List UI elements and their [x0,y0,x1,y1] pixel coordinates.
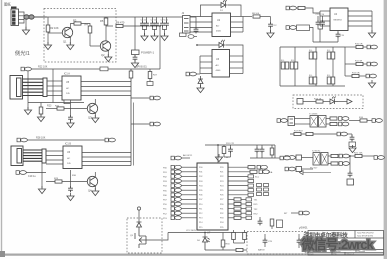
svg-text:IC1 B: IC1 B [65,143,71,146]
resistor R35 horizontal [236,248,243,251]
svg-text:BAT3V: BAT3V [258,249,265,252]
resistor R26 on bus [129,71,133,78]
ribbon end block B [42,149,46,163]
U7 inner pin text [199,167,223,229]
dashed enclosure box 4 [127,218,162,253]
wire drop x53 [52,69,54,103]
bus vertical x131 [130,69,132,166]
svg-text:R10 0R: R10 0R [355,44,363,46]
wire tag to U3 [197,73,201,75]
grid vertical x316 [315,47,317,86]
resistor R14 [330,117,337,120]
Q1 emitter to ground wire [69,37,71,44]
left tag row7 [163,188,197,192]
wire B1 to T2 [302,157,314,159]
wire K2 to bus [310,28,314,43]
resistor R6 horizontal [116,24,123,27]
resistor pair RB1 [309,50,317,59]
svg-text:P13: P13 [199,218,202,220]
capacitor C16 [350,134,355,141]
Q4 collector wire [94,172,96,177]
wire J1 to dashed box [34,16,47,18]
junction dot x160 [159,25,161,27]
bottom wire y250 [205,249,236,251]
vertical x42 drop [41,163,43,188]
wire tag to R9 [297,7,299,9]
right row y218 [228,216,252,219]
bottom loop wire [313,41,338,43]
mosfet Q5 [135,231,146,248]
left tag row9 [163,198,197,202]
net tag Q11 [374,156,384,160]
ground under x28 [24,107,31,115]
svg-text:R23: R23 [47,105,52,108]
capacitor C4 [133,55,138,61]
svg-text:R13 1K: R13 1K [314,99,322,101]
wire drop x205 [204,233,206,238]
left tag row11 [163,207,197,211]
left tag row5 [163,179,197,183]
capacitor C17 [348,156,353,177]
ground under C4 [131,60,138,68]
capacitor C14 [320,16,325,26]
net tag A1 [21,67,31,71]
svg-text:T1 4N35: T1 4N35 [309,114,318,116]
wire to tag OUT1 [363,46,367,48]
svg-text:P23: P23 [220,181,223,183]
ground right of grid [368,80,375,88]
resistor R18 [306,132,313,135]
wire row to C16 [347,133,352,135]
box label Y1 [349,142,356,147]
resistor R3 horizontal [74,22,81,25]
wire R13 to D4 [323,101,330,103]
U4 left pin wires [320,11,330,26]
box B2 row2 [296,167,302,172]
svg-text:R4: R4 [85,23,89,27]
wire B2 to T2 [302,168,314,170]
ground under R1 [44,42,51,50]
capacitor C15 under U4 [336,31,341,43]
CN3 ribbon wires [23,150,42,161]
svg-text:P07: P07 [199,199,202,201]
svg-text:C5 C6: C5 C6 [141,20,148,22]
svg-text:P26: P26 [220,195,223,197]
svg-text:IC1 A: IC1 A [64,73,70,76]
svg-text:Q1: Q1 [63,40,67,44]
svg-text:Total P/N 0F10792: Total P/N 0F10792 [357,232,374,235]
resistor R9 horizontal [298,6,305,9]
svg-text:P20: P20 [220,167,223,169]
title block outer frame [308,231,384,256]
left tag row13 [163,216,197,220]
switch cluster wires [248,145,275,148]
svg-text:P01: P01 [199,172,202,174]
component box K2 [297,25,310,31]
ground under C9 C10 [161,33,168,41]
ground right of U4 [368,30,375,38]
left tag row2 [163,165,197,169]
svg-text:P00: P00 [199,167,202,169]
ground under D3 [197,85,204,93]
wire U2 to C12 node [243,16,252,18]
wire row to R16 [349,120,360,122]
net tag B4 end [105,138,115,142]
svg-text:AD KEY1: AD KEY1 [183,154,193,157]
svg-text:Sheet of: Sheet of [347,253,355,256]
resistor R29 horizontal [55,180,62,183]
wire row1 to R21 [350,155,356,157]
svg-text:VCC MCU: VCC MCU [186,230,197,232]
net tag P6 [337,132,347,136]
svg-text:P22: P22 [220,176,223,178]
net tag X1 [280,156,290,160]
wire T1 out row1 [326,118,330,120]
wire drop x28 [27,71,29,110]
Q2 emitter wire [107,51,109,57]
net tag IN2 [286,26,296,30]
svg-text:4606: 4606 [216,31,222,33]
net tag B3 [17,138,27,142]
resistor R36 vertical [232,230,236,243]
net tag B5 [16,171,26,175]
svg-text:P11: P11 [199,208,202,210]
svg-text:R21 10K: R21 10K [354,153,363,155]
diode D3 vertical [198,76,203,87]
wire row134 [290,133,337,135]
net tag G1 [186,72,196,76]
svg-text:HC: HC [66,88,70,90]
wire to tag [275,157,280,159]
transistor Q2 [100,41,110,51]
resistor R33 below right [270,219,274,229]
svg-text:P25: P25 [220,190,223,192]
box under U5 [64,100,71,104]
resistor R16 [360,119,367,122]
ground under C5 C6 [141,33,148,41]
svg-text:Q2: Q2 [101,53,105,57]
transistor Q4 [87,176,97,186]
resistor R4 vertical [88,26,92,46]
wire R6 to node [123,25,160,27]
resistor pair RC2 [327,75,335,84]
T2 out row2 resistor R20 [328,162,338,165]
ferrite bead FB1 [24,15,29,19]
svg-text:P03: P03 [199,181,202,183]
left tag row10 [163,202,197,206]
IC U7 MCU body [197,163,228,230]
wire y102 [28,102,84,104]
svg-text:P15: P15 [199,227,202,229]
net tag P4 [339,122,349,126]
resistor R32 [270,148,274,155]
svg-text:Q3: Q3 [88,116,92,120]
svg-text:C7 C8: C7 C8 [151,20,158,22]
svg-text:ME4953: ME4953 [334,20,343,22]
ground under C7 C8 [151,33,158,41]
svg-text:P21: P21 [220,172,223,174]
capacitor C22 [255,147,260,153]
arrow head right [347,99,352,104]
border frame bottom edge [0,254,387,256]
Q1 collector wire [71,24,75,29]
U5 right pin wires to bus [81,82,131,96]
wire y140 rail [27,139,105,141]
U3 left pin wires [200,56,212,74]
net tag OUT1 [367,45,377,49]
join wire under R31 C21 [224,157,231,158]
output wire row2 [345,63,356,65]
svg-text:SDA: SDA [268,171,273,174]
optocoupler T2 [313,153,328,166]
arrow end x42 [38,186,45,194]
svg-text:P05: P05 [199,190,202,192]
wires P2 to T1 [295,119,311,125]
svg-text:微信号:2wrck: 微信号:2wrck [301,237,375,252]
wires J2 to U2 [190,17,212,33]
right row y172 wire [228,170,273,174]
resistor R34 vertical [221,233,225,251]
capacitor C25 [263,234,268,247]
right row y181 [228,179,254,182]
U4 right pin wires [348,11,372,32]
node dot D2 feed [196,44,198,46]
IC U2 [212,13,231,37]
wire R25 to Q3 base [64,108,88,110]
U2 right pin wires [231,17,244,33]
wire to R25 [46,108,57,110]
net tag OUT2 [367,62,377,66]
right row y167 wire [228,165,267,169]
svg-text:SPI BUS1: SPI BUS1 [136,66,147,69]
junction x350 [349,155,351,157]
connector J2 [183,16,191,34]
right row y176 [228,175,260,179]
tag box [180,33,187,36]
ground under J1 [22,27,29,35]
resistor R10 [356,45,363,48]
svg-text:AO: AO [216,64,219,67]
resistor R17 [294,132,301,135]
output wire row3 [345,75,352,77]
connector CN3 [11,146,23,166]
ground under Q2 [105,54,112,62]
ground under R31 C21 [215,154,222,162]
wire drop to ground [25,20,27,30]
capacitor C23 [260,147,265,153]
resistor pair RA1 [281,60,289,69]
grid vertical x295 [294,47,296,86]
box under R27 [147,82,153,86]
svg-text:R17 R18: R17 R18 [294,131,303,133]
right row y195 [228,193,254,196]
svg-text:P35: P35 [220,227,223,229]
top rail y145 [205,144,248,146]
svg-text:P10: P10 [199,204,202,206]
resistor R37 vertical [234,230,247,243]
bus second line [133,103,135,166]
svg-text:PC 817: PC 817 [310,168,318,170]
IC U4 [330,8,348,31]
component box S1 [297,99,303,105]
grid vertical x333 [332,47,334,86]
net tag OUT3 [366,74,376,78]
border frame corner mark [0,251,5,257]
border frame right edge band [384,0,387,259]
wire under caps [318,26,323,42]
wire rail to R7 [135,16,196,18]
LED D6 vertical [203,237,210,250]
svg-text:P24: P24 [220,185,223,187]
ground under Y1 [349,145,356,153]
svg-text:R3: R3 [73,19,77,23]
wire D4 to arrow [338,101,347,103]
net tag P3 [339,117,349,121]
wire y69 rail [31,68,160,70]
left tag column row1 [171,154,193,160]
wire to tag OUT2 [363,63,367,65]
net tag VCC left [188,35,197,39]
resistor R27 [148,69,152,82]
title block small text right [357,232,374,238]
crystal box Y2 [347,179,354,185]
svg-text:侧光I1: 侧光I1 [15,49,30,57]
svg-text:P34: P34 [220,222,223,224]
resistor network RN1 [257,184,269,196]
resistor pair RC1 [327,50,335,59]
CN2 ribbon wires [23,79,44,96]
wire out of box [146,233,168,241]
transistor Q3 [87,103,97,113]
svg-text:P12: P12 [199,213,202,215]
top rail wire [47,16,136,18]
U6 right pin wires to bus [82,153,131,166]
resistor R12 [352,74,359,77]
IC U5 [62,76,81,100]
IC U3 [212,50,230,78]
net tag Q10 [339,162,349,166]
left tag row4 [163,175,197,179]
resistor pair RA2 [290,60,298,69]
ground under Q1 [67,42,74,50]
connector J1 [11,9,19,26]
U3 right pin wires [230,56,244,74]
svg-text:R12 0R: R12 0R [352,73,360,75]
resistor R1 [46,17,50,44]
ground under R24 [37,114,44,122]
svg-text:R2 10K: R2 10K [50,26,59,30]
vertical x160 node wire [159,26,161,69]
grid left vertical [279,47,281,86]
ground under Q4 [92,188,99,196]
ground under Q3 [92,115,99,123]
capacitor pair C7 C8 [150,17,159,35]
net tag W1 [284,211,309,215]
wire R1 to Q1 base [48,32,63,34]
capacitor C18 [68,104,73,121]
right row y213 [228,212,258,216]
resistor R5 vertical on Q2 collector [104,17,108,41]
IC U6 [63,146,82,169]
resistor R8 horizontal [253,15,260,18]
resistor R15 [330,122,337,125]
wire R35 to dashed box [243,249,247,251]
box B1 row1 [296,155,302,160]
svg-text:4606: 4606 [216,70,222,72]
net tag A3 [150,122,160,126]
svg-text:┏SW01: ┏SW01 [299,226,308,230]
right row y190 [228,189,254,192]
net tag Q9 [339,154,349,158]
svg-text:Q4: Q4 [88,189,92,193]
svg-text:P31: P31 [220,208,223,210]
inline box on rail [100,67,108,71]
resistor R31 [222,145,226,157]
wire to MCU top [217,145,219,163]
wire R4 to Q2 base [90,45,101,47]
left tag row8 [163,193,197,197]
wire R8 to C12 [260,16,271,18]
svg-text:T2 817C: T2 817C [312,151,321,153]
junction dot [217,144,219,146]
right row y209 [228,207,258,211]
wire R21 to tag [362,155,374,157]
svg-text:P04: P04 [199,185,202,187]
title row labels [310,250,366,256]
svg-text:R28 10K: R28 10K [36,137,46,140]
grid top rail [280,46,345,48]
svg-text:R31 C21: R31 C21 [226,143,235,145]
connector J1 label [11,7,17,9]
wires to U5 [47,81,62,96]
right row y186 [228,184,254,187]
capacitor C11 [194,17,199,33]
output wire row1 [345,46,356,48]
net tag Q8 row2 [285,167,295,171]
dashed enclosure box 3 [247,232,307,255]
wire y232 [168,232,247,234]
wire into box [138,210,140,222]
wire dim line [303,172,331,174]
arrow mark left [300,171,304,175]
capacitor pair C9 C10 [160,17,169,35]
capacitor C24 below right [258,217,263,225]
LED D2 [217,40,225,48]
J1 pin wires [19,12,25,23]
svg-text:P06: P06 [199,195,202,197]
tap wire y98 [131,97,150,99]
svg-text:P27: P27 [220,199,223,201]
Q4 emitter wire [94,186,96,190]
dashed enclosure box 1 [44,9,116,63]
capacitor pair C5 C6 [140,17,149,35]
ferrite bead FB2 [29,15,34,19]
svg-text:R8 100: R8 100 [252,13,260,15]
LED D1 loop wire [201,5,242,17]
svg-text:图纸: 图纸 [4,2,11,7]
tag circle above box [137,207,140,210]
svg-text:R5: R5 [100,19,104,23]
ground under C18 [67,120,74,128]
connector CN2 [10,76,23,100]
LED D2 wires [197,45,243,74]
right row y199 [228,198,258,202]
LED D4 [330,97,338,105]
wire R16 to tag [367,120,372,122]
net tag Q7 row1 [285,156,295,160]
border frame left edge [1,0,3,257]
wire R3 to R4 [81,24,90,27]
